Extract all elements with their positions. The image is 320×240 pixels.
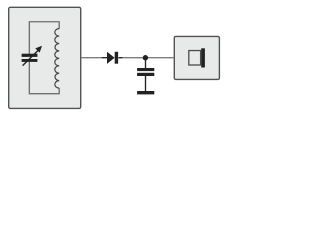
variable capacitor C1 arrow xyxy=(23,46,42,66)
diode D1 cathode bar xyxy=(115,52,118,64)
diode D1 anode triangle xyxy=(107,52,115,64)
wire tank loop bottom xyxy=(29,62,59,94)
earphone block box (right grey box) xyxy=(174,36,219,79)
junction node xyxy=(143,55,148,60)
ground xyxy=(137,91,154,94)
earphone symbol square xyxy=(189,51,201,65)
wire tuner to diode xyxy=(81,57,102,59)
inductor L1 coil xyxy=(55,29,59,89)
tuner block box (left grey box) xyxy=(9,7,81,108)
wire tank loop top xyxy=(29,22,59,54)
wire node to capacitor C2 xyxy=(145,58,147,68)
variable capacitor C1 plates xyxy=(22,54,38,57)
earphone symbol bar xyxy=(201,48,205,67)
wire capacitor C2 to ground xyxy=(145,76,147,91)
diode D1 cathode lead xyxy=(118,57,122,59)
capacitor C2 plates xyxy=(137,68,154,71)
diode D1 anode lead xyxy=(102,57,107,59)
wire diode to earphone box xyxy=(123,57,175,59)
